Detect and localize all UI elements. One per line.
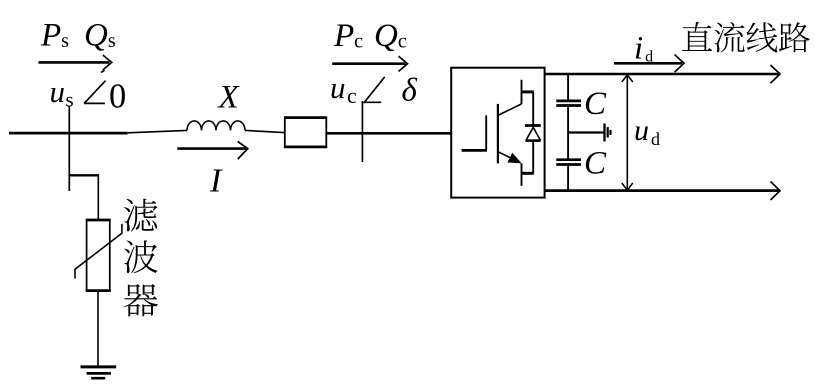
svg-text:id: id — [634, 30, 653, 66]
IGBT emitter arrowhead — [507, 153, 521, 164]
node u_c bar — [361, 101, 363, 162]
IGBT emitter diagonal — [498, 152, 516, 161]
svg-text:Ps: Ps — [40, 18, 69, 54]
label 滤波器 (filter) — [124, 199, 158, 317]
svg-text:ud: ud — [634, 114, 660, 149]
svg-text:Pc: Pc — [333, 18, 363, 54]
measure arrow u_d — [622, 75, 633, 190]
wire: inductor to transformer box — [245, 130, 284, 132]
wire: capacitor branch top — [567, 74, 569, 100]
svg-text:Qc: Qc — [374, 18, 407, 54]
arrow i_d DC current — [614, 55, 684, 73]
wire: DC positive rail — [545, 65, 780, 83]
svg-text:0: 0 — [109, 77, 126, 115]
arrow P_s Q_s power flow — [38, 55, 111, 70]
earth symbol (right-facing) at DC midpoint — [605, 124, 611, 142]
svg-text:C: C — [584, 146, 607, 182]
bar collector to diode branch — [521, 90, 534, 93]
diode D1 triangle — [526, 127, 540, 140]
filter tap wire vertical — [97, 174, 99, 220]
IGBT gate bar — [485, 115, 487, 149]
IGBT body bar — [497, 104, 499, 163]
wire: bus from transformer to converter — [327, 132, 451, 135]
IGBT collector stub — [521, 80, 523, 104]
arrow P_c Q_c power flow — [332, 56, 407, 71]
IGBT emitter stub — [521, 163, 523, 185]
wire: capacitor branch middle — [567, 107, 569, 159]
wire: bus to inductor — [128, 130, 187, 132]
filter tap wire horizontal — [69, 174, 99, 176]
IGBT gate lead — [462, 149, 487, 152]
capacitor C1 plates — [556, 101, 581, 106]
svg-text:Qs: Qs — [84, 18, 116, 54]
transformer/resistor box — [284, 118, 327, 147]
diode branch wire upper — [532, 92, 534, 125]
svg-text:X: X — [217, 80, 241, 116]
wire: filter to ground — [97, 291, 99, 367]
diode D1 anode bar — [525, 139, 540, 142]
label 直流线路 (DC line) — [682, 22, 810, 53]
IGBT collector diagonal — [498, 104, 522, 116]
wire: AC bus thick segment from source — [9, 132, 128, 135]
filter box — [86, 220, 111, 291]
angle symbol for u_c — [364, 77, 385, 103]
angle symbol for u_s — [84, 70, 105, 103]
diode branch wire lower — [532, 142, 534, 174]
arrow: current I — [177, 142, 248, 160]
svg-text:I: I — [209, 163, 223, 200]
wire: capacitor midpoint to earth — [568, 131, 604, 133]
svg-text:C: C — [584, 86, 607, 122]
wire: DC negative rail — [545, 182, 780, 201]
ground symbol — [81, 367, 117, 378]
node u_s bus bar — [68, 106, 70, 191]
bar emitter to diode branch — [521, 172, 534, 175]
filter diagonal slash — [75, 224, 122, 279]
wire: capacitor branch bottom — [567, 166, 569, 191]
capacitor C2 plates — [556, 160, 581, 165]
svg-text:uc: uc — [330, 70, 357, 108]
converter U1 box — [451, 68, 544, 198]
diode D1 cathode bar — [525, 124, 541, 127]
svg-text:us: us — [50, 74, 74, 112]
svg-text:δ: δ — [402, 73, 418, 109]
inductor X (phase reactor) — [187, 121, 245, 131]
